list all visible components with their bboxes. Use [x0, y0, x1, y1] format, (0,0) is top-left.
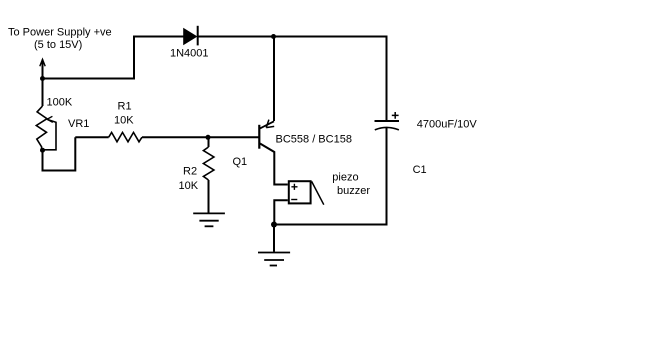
svg-text:10K: 10K	[179, 180, 199, 192]
svg-text:To Power Supply +ve: To Power Supply +ve	[8, 27, 112, 39]
svg-text:(5 to 15V): (5 to 15V)	[34, 39, 82, 51]
svg-text:R2: R2	[183, 166, 197, 178]
svg-text:C1: C1	[413, 164, 427, 176]
svg-text:1N4001: 1N4001	[170, 48, 209, 60]
svg-text:buzzer: buzzer	[337, 185, 370, 197]
svg-text:100K: 100K	[47, 97, 73, 109]
svg-text:10K: 10K	[114, 115, 134, 127]
svg-text:Q1: Q1	[233, 156, 248, 168]
svg-text:BC558 / BC158: BC558 / BC158	[276, 134, 352, 146]
svg-text:4700uF/10V: 4700uF/10V	[417, 118, 478, 130]
svg-text:VR1: VR1	[68, 118, 89, 130]
svg-text:R1: R1	[118, 101, 132, 113]
svg-text:piezo: piezo	[332, 171, 358, 183]
